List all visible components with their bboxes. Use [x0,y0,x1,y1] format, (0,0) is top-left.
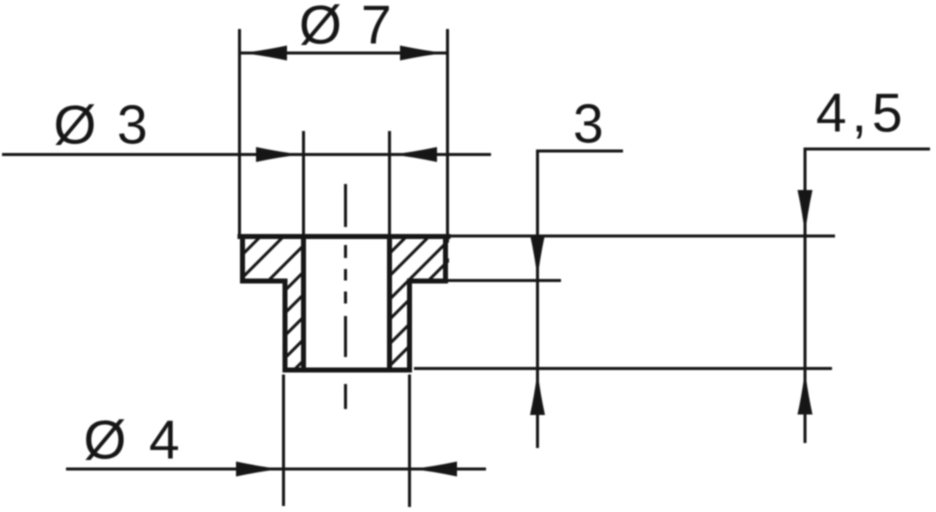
arrow diameter7 right [400,46,446,61]
flange top edge [238,234,451,239]
arrow dim3 down [530,235,545,281]
hole left wall [301,234,306,373]
svg-text:3: 3 [117,94,148,156]
extension line sleeve bottom right [414,367,832,370]
hatching right region [263,230,526,380]
arrow diameter3 right [391,147,437,162]
arrow diameter3 left [256,147,302,162]
extension line flange bottom right [448,279,561,282]
extension line hole right [388,131,391,234]
sleeve right wall [407,279,412,373]
arrowheads [236,46,813,477]
arrow diameter4 right [411,462,457,477]
svg-text:4: 4 [149,409,180,471]
arrow dim45 up [798,369,813,415]
svg-text:Ø: Ø [54,94,97,156]
flange bottom right edge [407,279,448,284]
dim line diameter4 [66,468,486,471]
sleeve bottom edge [283,368,413,373]
centerline [344,184,347,409]
svg-text:4,5: 4,5 [816,82,907,144]
label diameter 4 [84,409,180,471]
extension line hole left [302,131,305,234]
extension line sleeve right [408,375,411,508]
flange left edge [240,234,245,284]
arrow diameter7 left [241,46,287,61]
label diameter 7 [299,0,392,56]
dim line diameter7 [240,52,448,55]
part outline [238,234,451,373]
arrow dim3 up [530,370,545,416]
svg-text:Ø: Ø [299,0,342,56]
flange bottom left edge [240,279,288,284]
leader line dim 4,5 [805,149,930,443]
extension line left of diameter7 [238,29,241,234]
svg-text:3: 3 [573,93,604,155]
label diameter 3 [54,94,148,156]
extension line right of diameter7 [446,29,449,234]
extension line flange top right [451,235,836,238]
svg-text:7: 7 [361,0,392,56]
flange right edge [443,234,448,284]
extension line sleeve left [282,375,285,507]
sleeve left wall [283,279,288,373]
leader line dim 3 [538,151,624,448]
svg-text:Ø: Ø [84,409,127,471]
hole right wall [387,234,392,373]
arrow dim45 down [798,190,813,236]
arrow diameter4 left [236,462,282,477]
hatching left region [117,230,434,380]
dim line diameter3 [2,153,491,156]
